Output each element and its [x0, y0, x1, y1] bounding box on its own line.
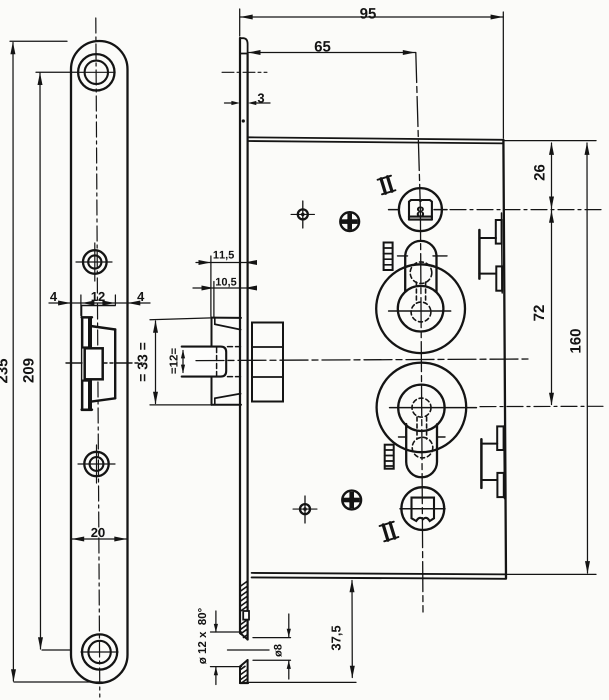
- faceplate edge view right edge: [247, 54, 249, 640]
- bolt guide upper: [478, 230, 481, 279]
- latch front view: right edge: [114, 330, 116, 399]
- bottom screw hole: [82, 634, 117, 669]
- upper cylinder rose: [376, 264, 465, 353]
- latch front view: top edge + slant: [82, 316, 92, 318]
- II mark upper: [378, 176, 396, 195]
- faceplate centerline (vertical dash-dot): [96, 18, 100, 697]
- strip bottom edge: [240, 682, 248, 684]
- main vertical axis of lock: [416, 53, 421, 210]
- countersunk hole funnel section: [240, 633, 248, 667]
- latch head bevel: [214, 318, 216, 325]
- dim 37,5: [351, 581, 353, 678]
- countersink centerline: [228, 649, 270, 651]
- lower euro profile (hidden): [412, 398, 433, 458]
- upper euro profile (hidden): [410, 262, 432, 322]
- latch tail block: [252, 323, 283, 402]
- latch front view: upper guide bar: [82, 318, 91, 348]
- LEFT-VIEW: [66, 18, 142, 697]
- dim 95: [240, 16, 503, 18]
- strip top cap: [240, 38, 248, 53]
- RIGHT-VIEW: [182, 38, 603, 683]
- lower follower hub: [401, 487, 444, 530]
- upper cylinder keyhole neck: [405, 241, 436, 292]
- lock case top edge (double): [248, 137, 504, 140]
- lower cylinder axis dash-dot: [480, 405, 603, 407]
- phillips screw upper: [340, 212, 359, 231]
- faceplate front view outline: [71, 41, 128, 683]
- dim 72: [551, 211, 553, 405]
- hole 3: [84, 452, 108, 476]
- spring stack upper: [384, 243, 393, 271]
- strip ink dot: [242, 119, 245, 122]
- strip bent tab: [243, 611, 249, 620]
- dim 235: [12, 43, 14, 682]
- lock case bottom edge (double): [252, 573, 506, 575]
- dim 26: [551, 143, 553, 209]
- dim o8: [288, 614, 290, 637]
- hole 2: [83, 250, 107, 274]
- latch head side view: [211, 318, 213, 347]
- lower cylinder rose: [377, 363, 467, 453]
- II mark lower: [380, 522, 399, 542]
- pin lower: [300, 504, 310, 514]
- dim extension lines top/bottom right: [503, 140, 596, 142]
- dim 209: [39, 73, 42, 649]
- upper follower (8mm hub): [399, 188, 442, 231]
- lock horizontal axis: [196, 359, 530, 361]
- latch front view: bolt nose face: [85, 348, 103, 379]
- strip hatching: [240, 581, 248, 683]
- dim 11,5: [196, 262, 254, 264]
- latch cutout in faceplate: [82, 305, 116, 307]
- phillips screw lower: [342, 491, 361, 510]
- bolt guide lower: [480, 439, 483, 488]
- dim 10,5: [193, 287, 254, 289]
- dim 3: [225, 102, 233, 104]
- dim 65: [248, 52, 416, 54]
- faceplate edge view (strip) left edge: [239, 38, 241, 633]
- dim 160: [586, 143, 589, 573]
- dim o12 x 80: [215, 611, 217, 632]
- latch front view: bottom slant: [90, 398, 116, 402]
- latch front view: lower guide bar: [82, 381, 91, 410]
- follower axis dash-dot: [450, 209, 603, 211]
- upper cylinder center cross: [389, 310, 451, 312]
- lower cylinder center cross: [390, 407, 477, 409]
- faceplate horizontal centerline: [66, 362, 142, 364]
- lower cylinder keyhole neck: [406, 424, 437, 477]
- dim =12=: [182, 351, 184, 373]
- spring stack lower: [385, 445, 394, 469]
- screw axis tick on strip: [222, 71, 267, 73]
- top screw hole: [78, 54, 114, 90]
- dim =33=: [155, 321, 157, 404]
- dim 4 12 4: [49, 302, 150, 304]
- hidden edges of nose: [216, 348, 218, 376]
- lock case right edge: [503, 140, 506, 579]
- latch bolt nose side view: [182, 347, 227, 377]
- dim 20: [72, 538, 128, 540]
- pin upper: [298, 209, 308, 219]
